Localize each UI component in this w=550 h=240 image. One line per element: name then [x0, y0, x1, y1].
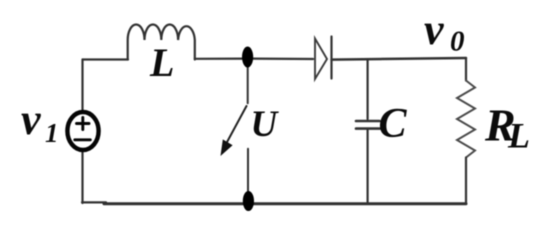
svg-text:0: 0	[450, 26, 465, 58]
svg-text:U: U	[251, 104, 280, 145]
svg-text:L: L	[507, 116, 530, 156]
svg-text:v: v	[21, 95, 41, 144]
svg-text:L: L	[149, 40, 174, 85]
svg-text:C: C	[379, 101, 408, 147]
svg-text:v: v	[424, 5, 444, 54]
svg-text:1: 1	[45, 118, 59, 148]
